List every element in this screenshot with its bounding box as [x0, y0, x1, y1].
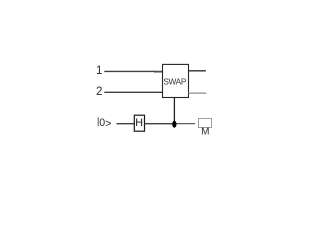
wire qubit-1 overlap segment — [154, 71, 163, 73]
SWAP gate U1 — [163, 64, 189, 97]
measurement meter box — [199, 119, 212, 128]
wire qubit-2 output — [188, 92, 206, 94]
control dot — [172, 121, 176, 128]
wire qubit-1 input — [104, 70, 162, 72]
svg-text:M: M — [201, 127, 209, 138]
svg-text:SWAP: SWAP — [163, 76, 187, 86]
node label |0> ancilla ket bar — [97, 117, 99, 126]
Hadamard gate H — [134, 115, 144, 131]
wire control vertical — [173, 97, 175, 121]
wire H to control — [145, 123, 173, 125]
svg-text:1: 1 — [96, 65, 102, 77]
wire qubit-1 output — [188, 70, 206, 72]
wire qubit-2 input — [104, 91, 162, 93]
wire control to meter — [177, 123, 196, 125]
svg-text:>: > — [105, 118, 111, 130]
svg-text:2: 2 — [96, 86, 102, 98]
svg-text:H: H — [135, 117, 143, 129]
wire ancilla to H — [116, 123, 134, 125]
svg-text:0: 0 — [99, 117, 105, 129]
